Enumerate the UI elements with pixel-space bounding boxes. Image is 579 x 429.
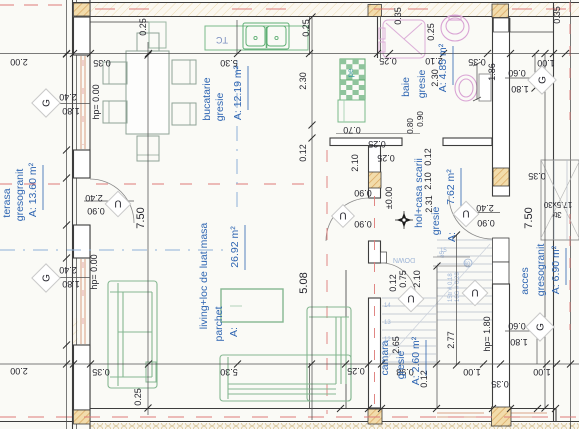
dining table	[126, 51, 169, 134]
wall: acces top inner line	[510, 31, 553, 33]
dim separator door U1	[84, 200, 134, 202]
svg-text:terasa: terasa	[1, 188, 13, 217]
svg-text:bucatarie: bucatarie	[201, 77, 213, 120]
svg-text:gresogranit: gresogranit	[535, 244, 547, 297]
dimension line 7.50 right	[544, 54, 546, 409]
svg-text:0.60: 0.60	[508, 321, 526, 331]
svg-text:0.12: 0.12	[388, 274, 398, 292]
door symbol U2	[332, 205, 355, 228]
wall: bottom inner face	[90, 408, 556, 410]
top exterior wall hatch band	[72, 3, 579, 17]
wall: bottom outer face	[0, 421, 579, 423]
door jamb camara	[381, 252, 387, 263]
svg-text:1.00: 1.00	[533, 367, 551, 377]
svg-text:A: 2.60 m²: A: 2.60 m²	[410, 336, 422, 385]
svg-text:gresie: gresie	[430, 207, 442, 236]
svg-text:A: 12.19 m²: A: 12.19 m²	[232, 65, 244, 120]
wall: left outer face line1	[72, 0, 74, 429]
dim separator door U3	[470, 212, 500, 214]
column: hol/acces wall mid	[493, 168, 509, 186]
svg-text:1.80: 1.80	[510, 337, 528, 347]
svg-text:hp= 0.00: hp= 0.00	[89, 254, 99, 289]
dining chair bottom	[137, 136, 159, 161]
svg-text:0.35: 0.35	[92, 367, 110, 377]
svg-text:0.35: 0.35	[491, 379, 509, 389]
svg-text:gresie: gresie	[214, 93, 226, 122]
kitchen hob checkered box 1	[340, 59, 365, 80]
dimension chain line top	[0, 53, 579, 55]
dimension line kitchen axis top	[236, 20, 238, 54]
svg-text:7.62 m²: 7.62 m²	[445, 169, 457, 205]
svg-text:0.25: 0.25	[377, 153, 395, 163]
kitchen sink tap	[266, 27, 268, 48]
svg-text:G: G	[536, 323, 547, 331]
svg-text:0.90: 0.90	[354, 219, 372, 229]
svg-text:0.25: 0.25	[379, 56, 397, 66]
svg-text:1.80: 1.80	[62, 106, 80, 116]
stair upper flight box	[541, 160, 579, 240]
door arc living from terasa	[90, 179, 134, 223]
svg-text:0.25: 0.25	[347, 366, 365, 376]
kitchen tall cabinet	[338, 100, 365, 122]
svg-text:hol+casa scarii: hol+casa scarii	[413, 158, 425, 228]
red dashed vertical hol wall	[374, 196, 376, 408]
washbasin baie	[441, 15, 469, 41]
svg-text:2.00: 2.00	[10, 366, 28, 376]
interior wall baie floor right segment	[443, 138, 492, 146]
svg-text:0.35: 0.35	[468, 57, 486, 67]
kitchen hob checkered box 2	[340, 80, 365, 100]
dim separator window G4	[505, 330, 537, 332]
dining chair top	[137, 33, 159, 51]
svg-text:U: U	[462, 208, 469, 219]
tick marks top chain	[63, 50, 569, 57]
svg-text:2.40: 2.40	[476, 203, 494, 213]
L-sofa vertical part	[307, 307, 351, 401]
svg-text:7.50: 7.50	[135, 207, 147, 228]
blue axis line terasa horizontal	[0, 249, 228, 251]
left wall pier rect 4	[74, 345, 91, 410]
svg-text:acces: acces	[519, 267, 531, 294]
svg-text:0.12: 0.12	[298, 144, 308, 162]
north arrow	[395, 211, 413, 229]
door symbol U3	[453, 201, 478, 226]
left window 2 glazing	[81, 259, 85, 344]
interior wall hol/acces upper segment	[493, 18, 510, 196]
svg-text:0.75: 0.75	[398, 270, 408, 288]
L-sofa horizontal part	[220, 355, 351, 401]
wall: bottom right step	[555, 409, 557, 422]
wall: top inner face	[90, 16, 579, 18]
wall: right outer zone line	[553, 3, 555, 422]
tick marks bottom wall chain	[337, 405, 559, 412]
red dashed line bottom full	[0, 416, 579, 418]
coffee table	[221, 289, 283, 322]
window symbol G4	[526, 313, 554, 341]
dining chair right 2	[172, 103, 196, 125]
svg-text:camara: camara	[379, 340, 391, 375]
svg-text:0.35: 0.35	[528, 171, 546, 181]
kitchen sink unit outer	[243, 23, 289, 49]
dimension line right top chain	[534, 54, 536, 89]
svg-text:60: 60	[465, 262, 471, 268]
interior wall hol-left lower segment	[369, 298, 381, 408]
hol/acces wall door-side frames	[493, 238, 510, 262]
dining chair right 1	[172, 60, 196, 84]
dining chair left 1	[103, 62, 127, 84]
hol/acces wall pier top	[494, 18, 509, 32]
small dim line baie door	[336, 133, 420, 135]
door symbol U1	[105, 191, 130, 216]
stair flight A treads	[382, 298, 436, 362]
svg-text:U: U	[339, 210, 346, 221]
left wall lower hatch strip	[73, 318, 78, 421]
bottom exterior paving hatch band	[90, 423, 579, 429]
column: bottom-right	[492, 407, 512, 426]
svg-text:1.80: 1.80	[62, 279, 80, 289]
toilet tank	[479, 74, 491, 101]
svg-text:2.00: 2.00	[10, 57, 28, 67]
kitchen sink basin 2	[267, 26, 286, 46]
kitchen sink basin 1	[246, 26, 265, 46]
left wall pier rect 2	[74, 150, 91, 178]
svg-text:gresogranit: gresogranit	[14, 169, 26, 222]
svg-text:0.80: 0.80	[406, 118, 415, 134]
living/camara wall bottom	[309, 363, 311, 408]
svg-text:2.40: 2.40	[85, 193, 103, 203]
interior wall stub kitchen/baie	[377, 17, 379, 58]
column: top-right	[492, 4, 509, 18]
svg-text:15tr # 0.18: 15tr # 0.18	[448, 273, 454, 302]
red dashed vertical right margin	[569, 2, 571, 120]
kitchen counter segment B	[205, 26, 308, 50]
left wall pier rect 3	[74, 225, 91, 258]
door arc camara	[381, 263, 416, 298]
svg-text:0.90: 0.90	[416, 111, 425, 127]
svg-text:0.25: 0.25	[368, 139, 386, 149]
svg-text:26.92 m²: 26.92 m²	[229, 226, 241, 268]
dim line G4 vertical	[536, 331, 538, 364]
window symbol G2	[32, 264, 60, 292]
svg-text:TC: TC	[216, 35, 228, 45]
dimension chain line bottom	[0, 363, 579, 365]
svg-text:hp= 0.00: hp= 0.00	[91, 84, 101, 119]
door arc hol-acces	[449, 196, 492, 239]
stair walk diagonal light	[384, 244, 490, 362]
svg-text:gresie: gresie	[416, 70, 428, 99]
svg-text:living+loc de luat masa: living+loc de luat masa	[198, 223, 210, 330]
column: top-mid	[368, 5, 382, 17]
interior wall hol-left mid segment	[369, 241, 381, 263]
red dashed vertical living right	[326, 150, 328, 414]
wall: left inner face lower	[89, 225, 91, 429]
wall: kitchen top secondary line	[90, 21, 162, 23]
wall: left inner face upper	[89, 0, 91, 178]
toilet	[455, 75, 477, 101]
svg-text:2.30: 2.30	[298, 72, 308, 90]
dimension line 7.50 left	[147, 42, 149, 415]
red dashed line mid terasa/living	[0, 183, 66, 185]
svg-text:0.25: 0.25	[301, 19, 311, 37]
tick marks bottom chain	[63, 361, 574, 368]
dining chair left 2	[103, 101, 127, 123]
tick marks left vertical	[63, 51, 70, 349]
dimension line left vertical	[66, 0, 68, 429]
window symbol G1	[32, 89, 60, 117]
interior wall baie floor left segment	[330, 138, 402, 146]
svg-text:pe: pe	[346, 68, 355, 77]
stair flight B treads	[437, 240, 492, 320]
column: hol wall mid	[369, 172, 382, 188]
svg-text:2.77: 2.77	[446, 331, 456, 349]
svg-text:5.08: 5.08	[298, 272, 310, 293]
svg-text:0.60: 0.60	[508, 68, 526, 78]
svg-text:G: G	[538, 76, 549, 84]
svg-text:hp= 1.80: hp= 1.80	[482, 316, 492, 351]
door symbol U5	[462, 280, 487, 305]
svg-text:2.40: 2.40	[59, 265, 77, 275]
window symbol G3	[528, 66, 556, 94]
svg-text:U: U	[407, 293, 414, 304]
svg-text:A: 4.85 m²: A: 4.85 m²	[437, 43, 449, 92]
bottom wall window glazing left	[437, 413, 547, 417]
svg-text:0.35: 0.35	[552, 6, 562, 24]
wall: left outer face line2	[76, 0, 78, 429]
svg-text:2.40: 2.40	[59, 92, 77, 102]
svg-text:1.00: 1.00	[537, 58, 555, 68]
dimension leader 1.86	[476, 63, 478, 100]
svg-text:A: 13.60 m²: A: 13.60 m²	[27, 162, 39, 217]
svg-text:0.25: 0.25	[426, 23, 436, 41]
svg-text:0.90: 0.90	[87, 206, 105, 216]
column: bottom-mid	[368, 409, 382, 424]
svg-text:0.35: 0.35	[93, 58, 111, 68]
red tick marks in left wall windows	[82, 60, 84, 145]
red dashed demolition line top-left	[0, 4, 66, 6]
wall: right dim edge line	[570, 0, 572, 429]
svg-text:1.00: 1.00	[463, 367, 481, 377]
svg-text:G: G	[42, 99, 53, 107]
blue axis line kitchen vertical	[236, 60, 238, 210]
svg-text:17.5x30: 17.5x30	[543, 200, 572, 209]
dimension line stair 2.77	[456, 235, 458, 365]
svg-text:0.35: 0.35	[393, 7, 403, 25]
sofa 1 vertical	[108, 281, 157, 388]
svg-text:1.80: 1.80	[511, 84, 529, 94]
svg-text:baie: baie	[400, 77, 412, 97]
svg-text:A: 6.90 m²: A: 6.90 m²	[550, 245, 562, 294]
dim separator window G2	[58, 277, 90, 279]
red dashed line in top wall	[95, 8, 160, 10]
left wall pier rect 1	[74, 17, 91, 55]
svg-text:0.90: 0.90	[354, 188, 372, 198]
door arc living-hol	[326, 198, 369, 241]
dim separator window G3	[505, 77, 535, 79]
svg-text:14: 14	[384, 303, 391, 309]
svg-text:gresie: gresie	[395, 351, 407, 380]
svg-text:0.25: 0.25	[133, 388, 143, 406]
svg-text:13: 13	[384, 320, 391, 326]
svg-text:U: U	[114, 198, 121, 209]
camara left thin wall	[345, 270, 347, 408]
tv stand small	[146, 362, 156, 382]
svg-text:0.70: 0.70	[343, 125, 361, 135]
svg-text:A:: A:	[446, 232, 458, 242]
dim separator window G1	[58, 103, 90, 105]
interior wall hol-left upper segment	[369, 146, 381, 198]
svg-text:3tr: 3tr	[552, 210, 562, 219]
electrical marker circle	[464, 259, 472, 267]
svg-text:7.50: 7.50	[523, 207, 535, 228]
kitchen counter segment A	[149, 22, 166, 48]
svg-text:0.25: 0.25	[138, 18, 148, 36]
kitchen right wall line	[309, 17, 311, 55]
interior wall hol/acces lower segment	[493, 284, 510, 408]
svg-text:±0.00: ±0.00	[384, 187, 394, 209]
svg-text:G: G	[42, 274, 53, 282]
column: bottom-left	[74, 410, 91, 424]
svg-text:2.10: 2.10	[412, 270, 422, 288]
svg-text:A:: A:	[228, 327, 240, 337]
wall: top outer face	[72, 2, 579, 4]
stair entry threshold lines	[433, 256, 470, 258]
dimension line living right vertical	[311, 17, 313, 420]
door symbol U4	[398, 286, 423, 311]
dimension line stair 2.10	[436, 266, 438, 408]
svg-text:0.90: 0.90	[477, 218, 495, 228]
svg-text:1.86: 1.86	[487, 63, 497, 81]
svg-text:16G # 0.28: 16G # 0.28	[455, 272, 461, 302]
svg-text:5.30: 5.30	[220, 367, 238, 377]
svg-text:DOWN: DOWN	[393, 256, 415, 263]
tick marks inner verticals	[145, 14, 549, 412]
svg-text:U: U	[471, 287, 478, 298]
shower cabin	[379, 20, 425, 58]
svg-text:2.10: 2.10	[350, 154, 360, 172]
svg-text:parchet: parchet	[213, 306, 225, 341]
left window 1 glazing	[81, 56, 85, 149]
column: top-left	[74, 3, 91, 16]
